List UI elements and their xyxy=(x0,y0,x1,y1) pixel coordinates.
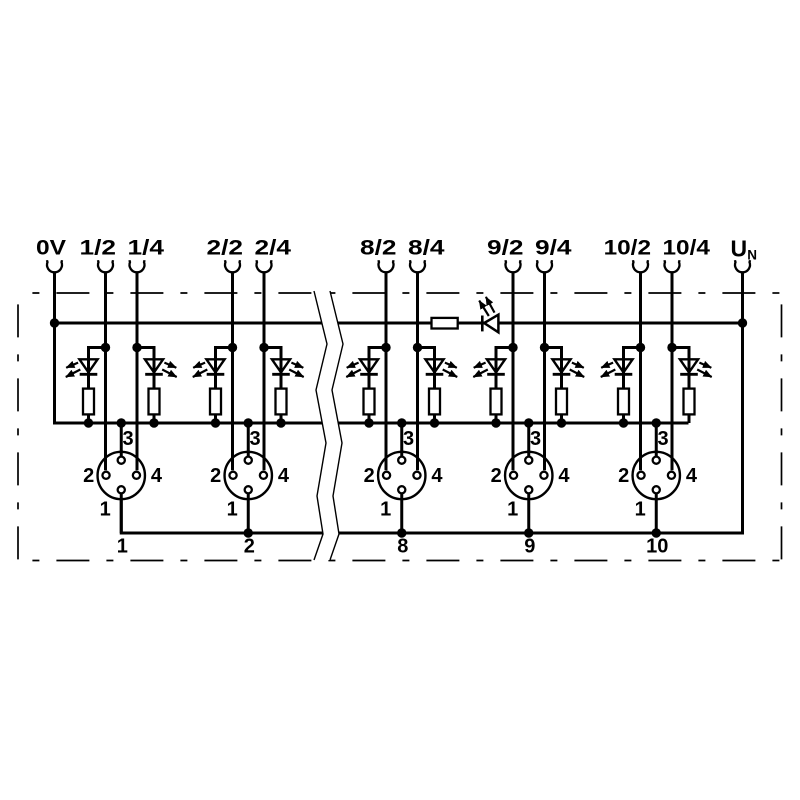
svg-text:0V: 0V xyxy=(36,237,66,260)
svg-text:2: 2 xyxy=(83,465,94,487)
svg-text:2/2: 2/2 xyxy=(207,237,244,260)
svg-text:3: 3 xyxy=(530,428,541,450)
svg-text:2: 2 xyxy=(618,465,629,487)
svg-text:1/4: 1/4 xyxy=(128,237,165,260)
svg-text:10/2: 10/2 xyxy=(604,237,651,260)
svg-text:8/2: 8/2 xyxy=(360,237,397,260)
svg-text:2: 2 xyxy=(244,535,255,557)
svg-text:U: U xyxy=(731,235,748,261)
svg-text:2: 2 xyxy=(491,465,502,487)
svg-text:1: 1 xyxy=(117,535,128,557)
svg-text:1/2: 1/2 xyxy=(80,237,117,260)
svg-text:1: 1 xyxy=(635,498,646,520)
svg-text:9/2: 9/2 xyxy=(487,237,524,260)
svg-text:10: 10 xyxy=(646,535,668,557)
svg-text:2/4: 2/4 xyxy=(255,237,292,260)
svg-text:3: 3 xyxy=(403,428,414,450)
svg-text:4: 4 xyxy=(278,465,290,487)
svg-text:3: 3 xyxy=(122,428,133,450)
svg-text:N: N xyxy=(747,248,757,263)
svg-text:2: 2 xyxy=(364,465,375,487)
svg-text:1: 1 xyxy=(227,498,238,520)
svg-text:8: 8 xyxy=(397,535,408,557)
svg-text:1: 1 xyxy=(100,498,111,520)
svg-text:4: 4 xyxy=(431,465,443,487)
svg-text:4: 4 xyxy=(686,465,698,487)
svg-text:1: 1 xyxy=(507,498,518,520)
svg-text:10/4: 10/4 xyxy=(663,237,711,260)
svg-text:3: 3 xyxy=(657,428,668,450)
svg-text:8/4: 8/4 xyxy=(408,237,445,260)
svg-text:9/4: 9/4 xyxy=(535,237,572,260)
svg-text:2: 2 xyxy=(210,465,221,487)
svg-text:1: 1 xyxy=(380,498,391,520)
svg-text:4: 4 xyxy=(151,465,163,487)
svg-text:4: 4 xyxy=(558,465,570,487)
svg-text:9: 9 xyxy=(524,535,535,557)
svg-text:3: 3 xyxy=(249,428,260,450)
